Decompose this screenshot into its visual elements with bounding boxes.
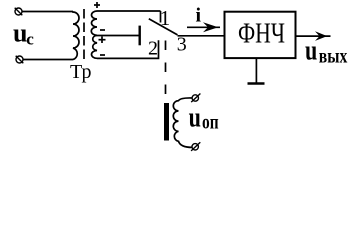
wire secondary top [97, 10, 161, 12]
output arrowhead [315, 31, 327, 41]
switch contact 1 stub [160, 11, 162, 23]
label u_op [189, 103, 219, 134]
electromagnet coil L1 [173, 98, 192, 147]
current arrow i [187, 22, 220, 32]
label i [196, 5, 202, 27]
transformer T1 secondary winding upper [91, 11, 97, 35]
label u_c [13, 19, 34, 49]
svg-text:ФНЧ: ФНЧ [238, 18, 285, 50]
center tap terminal bar [138, 26, 140, 46]
svg-text:3: 3 [177, 34, 187, 56]
transformer T1 primary winding [73, 12, 79, 60]
svg-text:вых: вых [319, 46, 348, 68]
label 1 [160, 6, 171, 30]
svg-text:i: i [196, 5, 202, 27]
output wire [296, 35, 331, 37]
svg-text:оп: оп [202, 111, 219, 133]
label Tp [70, 61, 91, 83]
svg-text:Тр: Тр [70, 61, 91, 83]
transformer T1 secondary winding lower [92, 35, 98, 58]
label 2 [148, 38, 158, 60]
svg-text:u: u [189, 103, 201, 134]
terminal ref bottom [191, 142, 200, 151]
svg-text:2: 2 [148, 38, 158, 60]
svg-text:u: u [305, 36, 317, 67]
polarity + mid [99, 37, 106, 44]
label 3 [177, 34, 187, 56]
switch arm [149, 19, 178, 35]
transformer T1 core [83, 9, 85, 59]
wire secondary bottom [97, 40, 159, 58]
wire input bottom [23, 59, 73, 61]
polarity - upper [100, 29, 105, 31]
wire node 3 to filter [178, 35, 225, 37]
ground wire [255, 58, 257, 83]
terminal input top [15, 8, 23, 16]
label u_out [305, 36, 347, 68]
center tap wire [97, 35, 140, 37]
polarity + top [94, 2, 100, 8]
terminal ref top [191, 94, 200, 103]
label FNCh [238, 18, 285, 50]
ground [248, 82, 265, 84]
wire input top [22, 11, 73, 13]
low-pass filter box FNCh [225, 12, 296, 58]
switch linkage dashed [165, 41, 167, 100]
electromagnet core bar [164, 103, 169, 141]
svg-text:c: c [26, 29, 34, 48]
polarity - bottom [100, 54, 105, 56]
terminal input bottom [16, 56, 24, 64]
